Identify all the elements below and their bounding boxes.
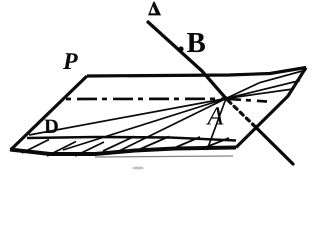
label P: [63, 53, 78, 69]
hatch stroke 5: [138, 137, 169, 151]
ray U2 from A: [226, 81, 300, 99]
line Delta upper segment: [148, 22, 226, 99]
label A: [206, 107, 223, 124]
plane P right edge: [236, 68, 306, 148]
faint double line under bottom edge: [95, 156, 233, 157]
faint caption smudge: [132, 167, 144, 170]
ray F1 from A toward D: [29, 99, 226, 136]
line Delta hidden dashed segment: [228, 101, 253, 125]
hatch stroke 2: [47, 142, 76, 157]
hatch stroke 4: [103, 137, 134, 152]
label D: [44, 120, 57, 133]
label Delta: [148, 2, 161, 16]
line Delta lower solid segment: [253, 125, 293, 165]
plane P bottom edge: [10, 148, 236, 155]
point B dot: [178, 46, 183, 51]
band inner line: [27, 137, 236, 141]
ray U3 from A: [226, 89, 293, 99]
ray F3 from A: [119, 99, 226, 152]
hatch stroke 6: [173, 137, 200, 149]
hatch stroke 1: [22, 140, 49, 154]
hatch stroke 3: [75, 142, 104, 156]
ray U1 from A to right corner: [226, 70, 306, 99]
plane P top edge: [87, 68, 306, 77]
label B: [187, 33, 205, 52]
dash-dot axis line through A: [66, 99, 267, 102]
ray F4 steep from A: [207, 99, 226, 151]
plane P left edge: [11, 76, 87, 150]
point A junction blob: [224, 96, 228, 100]
hatch stroke 7: [205, 138, 229, 148]
ray F2 from A: [63, 99, 226, 151]
